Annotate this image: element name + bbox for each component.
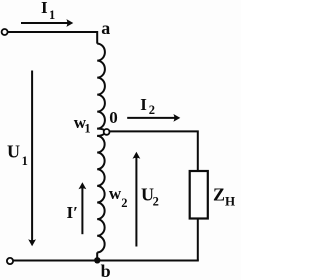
tap node 0 circle <box>104 129 110 135</box>
svg-text:I: I <box>140 95 147 114</box>
svg-text:Z: Z <box>213 185 225 205</box>
current arrow I2 (shaft + head) <box>127 117 175 119</box>
svg-text:w: w <box>109 184 122 203</box>
winding w1 (upper coil, 5 turns) <box>97 44 105 129</box>
svg-text:I′: I′ <box>67 203 78 222</box>
svg-text:2: 2 <box>149 103 155 117</box>
input terminal circle top-left <box>2 29 8 35</box>
voltage arrow U1 (down) <box>31 71 33 242</box>
svg-text:1: 1 <box>49 8 55 22</box>
junction node b (filled dot) <box>94 257 100 263</box>
wire top horizontal from input terminal to node a <box>8 32 98 44</box>
svg-text:2: 2 <box>153 195 159 209</box>
coil lead into tap circle (upper) <box>97 129 105 131</box>
voltage arrow U2 (up) <box>135 157 137 247</box>
svg-text:I: I <box>41 0 48 17</box>
svg-text:b: b <box>101 261 111 280</box>
current arrow I' (up) <box>81 187 83 234</box>
svg-text:a: a <box>101 18 110 38</box>
wire below load Z_H down to bottom rail <box>197 220 199 261</box>
wire bottom rail from load corner through node b to lower terminal <box>13 260 199 262</box>
wire from tap 0 to right then down to load <box>109 131 198 170</box>
winding w2 (lower coil, 7 turns) <box>97 136 104 253</box>
svg-text:1: 1 <box>22 154 28 168</box>
load resistor Z_H box <box>190 171 208 219</box>
wire coil bottom lead to node b <box>96 252 98 259</box>
svg-text:0: 0 <box>109 108 118 127</box>
svg-text:1: 1 <box>84 122 90 136</box>
input terminal circle bottom-left <box>7 258 13 264</box>
svg-text:H: H <box>225 194 235 209</box>
svg-text:U: U <box>7 142 20 162</box>
svg-text:2: 2 <box>121 196 127 210</box>
coil lead out of tap circle (lower) <box>97 133 105 136</box>
current arrow I1 (shaft + head) <box>21 22 69 24</box>
